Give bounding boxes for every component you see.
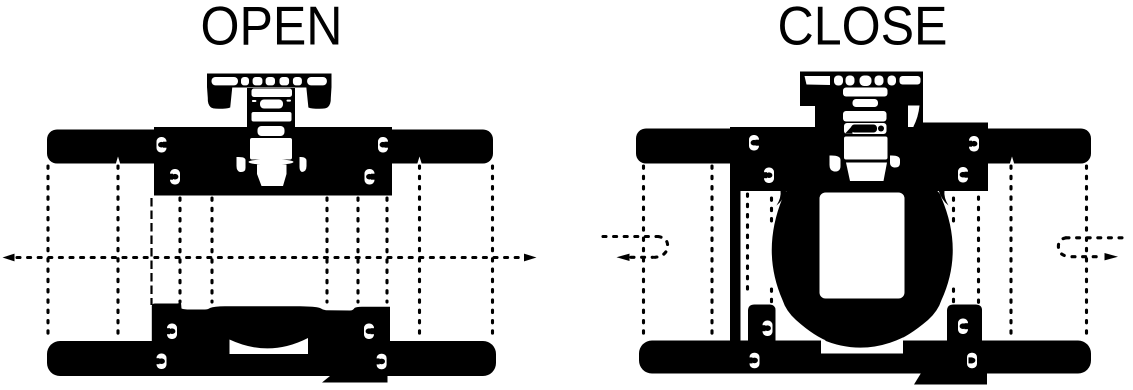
grip slot left [805,76,831,85]
handle stem [247,88,295,133]
hidden line v x358 [356,198,359,302]
handle grip slot right [307,77,327,85]
bolt mark c-top-left-2 [763,168,774,184]
flow arrow left [3,254,15,262]
blocked flow symbol right: arrow [1105,253,1119,260]
hidden line v x419 [418,166,421,339]
blocked flow symbol right: lower line [1072,255,1103,258]
handle stem [815,88,908,132]
handle bar [207,74,332,88]
bottom band [47,341,496,376]
hidden line v x771 lower [770,289,773,307]
hidden line v x212 [210,198,213,302]
bottom arch cutout [230,338,309,354]
handle grip slot left [212,77,239,85]
hidden line v x712 [710,166,713,338]
handle wing left [207,87,232,109]
grip hole 4 [875,76,884,86]
seat claw left [777,190,787,206]
bonnet lens [249,159,294,165]
bottom block right [947,305,982,342]
blocked flow symbol left: arrow [617,254,630,261]
bolt mark bottom-right-2 [376,354,387,370]
bonnet trapezoid slot [846,163,887,182]
blocked flow symbol right: hook [1058,238,1070,257]
grip hole 2 [846,76,855,86]
grip hole 5 [293,77,302,85]
bolt mark c-top-right-1 [968,136,979,152]
hidden line v x747 [746,194,749,296]
grip slot right [900,76,921,85]
stem slot 2 [260,100,283,109]
hidden line v x1086 [1085,166,1088,338]
flow arrow right [524,254,537,262]
grip hole 1 [834,76,843,86]
stem slot 4 [258,126,285,136]
band seam notch x118 [116,157,120,164]
bottom tab [322,376,388,383]
svg-text:OPEN: OPEN [201,0,343,57]
centerline [17,256,521,259]
bottom tab [914,372,987,385]
hidden line v x118 [116,166,119,339]
bottom block [152,303,390,342]
hidden line v x645 [642,166,645,338]
bonnet lower slot [257,165,287,187]
bolt mark bottom-right-1 [364,324,375,340]
blocked flow symbol left: lower line [631,256,653,259]
flange block top [154,127,392,196]
slot2 nub right [287,100,292,102]
grip hole 2 [253,77,263,85]
ball [772,188,953,342]
bolt mark c-top-right-2 [958,167,969,183]
stem slot A [843,88,888,97]
hidden line v x48 [46,166,49,339]
bottom arch cutout [821,338,903,354]
bore opening [820,193,905,299]
bolt mark c-bottom-right-1 [958,319,969,335]
handle bar (end view) [800,72,923,107]
bolt mark top-left-1 [157,137,168,153]
stem slot C [843,111,887,122]
hidden line v x327 [325,198,328,302]
bottom band [639,341,1091,374]
stem slot 3 [252,112,292,122]
bolt mark c-bottom-right-2 [967,353,977,369]
handle wing right [914,106,924,129]
bolt mark top-right-2 [365,169,376,185]
bottom block left [748,305,776,343]
bolt mark top-left-2 [169,169,180,185]
hidden line v x387 [385,198,388,302]
blocked flow symbol left: upper line [603,235,658,238]
band seam notch x419 [417,157,421,164]
bolt mark c-bottom-left-2 [749,353,760,369]
grip hole 1 [241,77,249,85]
slot D pill [851,125,877,133]
stem slot 1 [252,89,293,98]
hidden line v x771 upper [770,198,773,221]
hidden line v x180 [178,198,181,302]
band seam notch x1012 [1010,157,1014,164]
stem slot D [844,123,887,134]
grip hole 5 [888,76,897,86]
blocked flow symbol right: upper line [1066,236,1129,239]
grip hole 3 [860,76,872,87]
svg-text:CLOSE: CLOSE [778,0,948,57]
grip hole 4 [280,77,290,85]
wing right sliver [908,106,920,128]
hidden line v x953 upper [952,198,955,221]
bolt mark top-right-1 [378,137,389,153]
bolt mark c-top-left-1 [749,135,760,151]
handle wing right [306,87,331,109]
bonnet ear right [890,155,900,167]
slot D dot [878,126,884,132]
top band [47,130,493,164]
bonnet ear right [300,157,307,172]
bolt mark bottom-left-1 [166,324,177,340]
raised band tab right [918,123,988,135]
bonnet ear left [237,157,246,172]
flange left column [730,128,741,372]
grip hole 3 [266,77,275,85]
seat claw right [939,190,949,206]
blocked flow symbol left: hook [655,237,668,258]
stem nut [250,138,292,160]
stem nut [844,137,888,160]
bolt mark bottom-left-2 [156,354,167,370]
hidden line v x492 [491,166,494,339]
bonnet ear left [830,155,841,171]
hidden line v x953 lower [952,289,955,307]
hidden line v x1011 [1009,166,1012,338]
stem slot B [853,99,879,107]
top band [636,129,1091,164]
flange block top [730,127,988,191]
hidden line v x979 [977,197,980,304]
slot D wedge [845,126,853,134]
bolt mark c-bottom-left-1 [762,321,773,337]
slot2 nub left [252,100,257,102]
hidden line v x151.5 (long dash) [150,198,152,305]
